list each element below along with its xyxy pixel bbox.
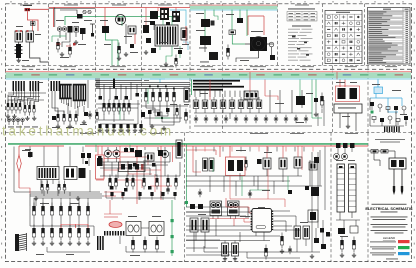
tall comp A2c (181, 28, 187, 40)
component C2-1 (109, 178, 112, 182)
wires B1c lower (98, 100, 138, 124)
switch B2s-1 (194, 117, 198, 121)
ground battery (17, 58, 21, 62)
inline connector C5a (371, 150, 378, 154)
relay block A2c-1 (150, 11, 158, 19)
component cluster B3R (370, 102, 408, 126)
coil C1-5 (68, 228, 71, 233)
blue drop wire B3R (377, 80, 379, 88)
green node B3R (371, 111, 374, 114)
section divider vertical x95 (95, 4, 97, 133)
key contact A4 (269, 42, 274, 55)
comps C4 top (336, 143, 355, 154)
mesh wires B1d (142, 106, 188, 118)
green accents A2a (52, 36, 66, 42)
wire cyan A2c (170, 10, 186, 26)
starter switch cluster (57, 26, 78, 33)
blue module B3R (374, 87, 383, 94)
labels C3 (198, 150, 308, 223)
relay C3c (294, 157, 302, 168)
regulator relay A2b (102, 26, 136, 34)
wire red alternator down (134, 34, 136, 44)
sensor B1a2-1 (24, 105, 26, 109)
connector pair C3 left (203, 158, 215, 171)
connector ring A2b (88, 10, 91, 13)
connector bars cluster B1a (13, 81, 25, 91)
small component B3R-2 (378, 104, 382, 108)
wire green regulator down (106, 33, 119, 66)
note inline connector sketches (292, 36, 309, 56)
wire green drop A3b (214, 10, 218, 20)
small component B3R-9 (396, 119, 400, 122)
injector C1-1 (33, 198, 35, 206)
comp A2c red (143, 8, 149, 34)
small component B3R-6 (372, 117, 376, 120)
wire green drops alternator (118, 14, 122, 26)
junction box B2 (244, 91, 258, 99)
labels A2a (56, 20, 92, 58)
relay B2-5 (229, 100, 235, 109)
red tops C1 second row (61, 224, 88, 228)
switch B1c-1 (103, 103, 106, 107)
right column comp C3c (308, 210, 318, 222)
fuel sender C4b (349, 164, 357, 212)
green vertical C2 right (185, 145, 188, 208)
diode block A2 (77, 14, 83, 19)
spark plug C5b (401, 169, 403, 195)
comps A2c bottom (144, 38, 182, 68)
mesh wires B1c (96, 104, 140, 108)
relay K1 (15, 30, 23, 42)
relay B2-4 (220, 100, 226, 109)
red outlined relay box C3 (226, 157, 246, 176)
dark box B2 right (296, 96, 305, 105)
section divider vertical x222 (222, 4, 224, 133)
wire red battery feed right (30, 8, 49, 10)
coil C1-4 (59, 228, 62, 233)
component C2 low-6 (173, 192, 176, 196)
svg-text:takethatmanual.com: takethatmanual.com (2, 124, 174, 139)
small component B3R-7 (380, 118, 384, 122)
labels A1 (16, 26, 41, 61)
component C2-2 (115, 178, 118, 182)
component C2-8 (175, 178, 178, 182)
main connector block A2c (155, 25, 178, 46)
lamp housing C2a (126, 222, 141, 236)
injector C1-4 (60, 198, 62, 206)
relay boxes C3 left (190, 218, 209, 232)
long wires C3 upper (186, 207, 248, 218)
ign module A3 (201, 19, 215, 27)
svg-text:ELECTRICAL SCHEMATIC: ELECTRICAL SCHEMATIC (365, 207, 413, 211)
svg-text:LEGEND: LEGEND (383, 236, 396, 240)
sensor B1a-1 (7, 103, 9, 107)
sensor column B1a2 (24, 102, 35, 116)
multi-pin connector B3R (384, 127, 400, 133)
red wires C3 lower (230, 146, 302, 207)
relay B3b (350, 88, 358, 99)
labels B1b (52, 124, 87, 128)
wire green connector drops (160, 17, 180, 63)
connector bars C1 right (97, 236, 104, 250)
lamp housing C2b2 (149, 222, 164, 236)
lamp B1c-5 (126, 124, 129, 128)
wires C3 extra mesh (186, 176, 290, 196)
wire C1 from red to harness (19, 188, 30, 194)
extra comps B1d (148, 105, 178, 119)
red segment C2 top (104, 159, 120, 163)
comps B1b (52, 111, 92, 120)
tall comp C2 right (176, 140, 182, 158)
bold bus bars B2 (193, 80, 244, 91)
legend blue bar (370, 252, 410, 255)
fuel pump C4a (337, 164, 345, 212)
switch B1c-4 (118, 103, 121, 107)
coil C1-6 (77, 228, 80, 233)
relay B2-3 (211, 100, 217, 109)
wires C2 lower (106, 191, 175, 200)
grounds B1b (56, 120, 86, 128)
junction bar B1c (113, 79, 115, 89)
component row C2 (109, 175, 178, 190)
wires C4 (336, 212, 360, 228)
fuse holder block (160, 8, 169, 20)
wire red A4 (248, 16, 264, 35)
sensor column B1a (7, 100, 21, 114)
ground amp (346, 124, 350, 128)
comps C3 left small (190, 204, 203, 209)
wire black A2 top (60, 10, 77, 14)
switch row B2 (194, 115, 308, 123)
red wires C2 lower (104, 170, 122, 198)
switch B2s-6 (244, 117, 248, 121)
comp C3 right mid (280, 233, 284, 254)
harness wires B1c horizontal (96, 79, 142, 89)
coil bank C1 second row (32, 225, 90, 246)
section divider vertical x368 (middle strip) (367, 66, 369, 133)
wires out ECU right (273, 211, 300, 232)
comp B1d bottom (141, 109, 188, 124)
wires C3 left (186, 232, 230, 255)
green wire B2 right edge (315, 80, 317, 99)
labels A3 (196, 13, 209, 62)
red drops B3 (337, 72, 345, 87)
red marks A2 bottom (56, 43, 76, 46)
wires B3R links (370, 98, 406, 126)
switch row B1d (144, 88, 175, 116)
comp C1 small top (25, 149, 33, 157)
lamp B1c-2 (105, 124, 108, 128)
small comp A4b (226, 45, 229, 60)
wire black alternator down (125, 24, 127, 44)
lower bus red wire (85, 146, 368, 147)
component C2 low-4 (150, 192, 153, 196)
wires C1 bottom links (30, 206, 94, 252)
wires C1 mid mesh (14, 170, 104, 196)
lamp socket B1-2 (12, 118, 16, 122)
coil C1-3 (50, 228, 53, 233)
switch B2s-8 (264, 117, 268, 121)
coil C1-7 (86, 228, 89, 233)
coil pack cluster C3 right (294, 226, 310, 239)
small component B3R-3 (386, 107, 390, 110)
component C2-5 (143, 178, 146, 182)
dual gauge C3b (228, 201, 240, 219)
relay K2 (26, 30, 34, 42)
lamp B1c-1 (98, 124, 101, 128)
labels C2b (128, 216, 161, 256)
relay module A3 (200, 36, 211, 52)
section divider vertical x190 (189, 4, 191, 133)
red oval connector C2b (109, 222, 122, 228)
switch B1c-5 (123, 103, 126, 107)
section title labels middle (22, 65, 397, 68)
relay module A2 (80, 28, 86, 40)
wires C3 bottom (204, 220, 323, 258)
wires C2 mid (100, 152, 180, 178)
sensor row B1b (57, 111, 78, 125)
gauge sensor B1b-4 (75, 114, 78, 118)
wire green A4 to switch (232, 35, 245, 45)
section divider horizontal y132 (6, 132, 412, 134)
grounds B1a (6, 114, 37, 120)
component C2 low-3 (138, 192, 141, 196)
lower bus red wire left segment (19, 146, 64, 147)
wires below cluster connectors (62, 99, 85, 109)
switch B1c-2 (108, 103, 111, 107)
relay C3a (263, 158, 271, 169)
wire red main feed A2 (49, 8, 96, 9)
switch B1d-5 (173, 88, 175, 92)
section divider vertical x48 (48, 4, 50, 133)
lamp bank B1c bottom (98, 124, 143, 132)
sensor B1a2-2 (28, 105, 30, 109)
wire red main feed A2b (96, 7, 142, 9)
comps C2 extra (98, 156, 156, 167)
sender gauge C4b (342, 154, 348, 160)
wires C2b links (120, 228, 165, 252)
comps C2 bottom (131, 237, 158, 253)
wire red connector drop (158, 8, 186, 45)
lamp B1c-7 (139, 124, 142, 128)
power bus band top red feed line (190, 4, 278, 7)
gauge sensor B1b-2 (63, 114, 66, 118)
section divider vertical x364 (top strip) (364, 4, 366, 66)
main bus red feed line (6, 71, 412, 72)
green edge wire B2 (191, 80, 193, 96)
wire C5 left drop (374, 153, 380, 166)
labels B1d (144, 80, 189, 105)
red verticals C2 (120, 146, 173, 204)
wire red main feed A2c (142, 7, 191, 9)
injector C1-5 (69, 198, 71, 206)
grounds A2b (117, 52, 128, 60)
ignition coil unit C5 (389, 158, 406, 169)
relay B2-2 (202, 100, 208, 109)
small comps A2b (117, 43, 134, 57)
gauge G1 (105, 150, 112, 162)
coil C1-1 (32, 228, 35, 233)
sender gauge C4a (334, 154, 340, 160)
lamp socket B1-1 (7, 118, 11, 122)
green drops C2 (96, 145, 130, 152)
comp A4 top (237, 18, 243, 23)
wire relay K2 down (30, 42, 49, 62)
component C2-3 (126, 178, 129, 182)
connector bars cluster B1c (51, 81, 61, 91)
section divider vertical x332 (middle strip) (332, 66, 334, 133)
title block text (365, 204, 413, 234)
labels inside green bus band (14, 74, 403, 75)
comp cluster C1c (81, 153, 91, 166)
component list table rows (368, 8, 411, 65)
small component B3R-10 (404, 116, 408, 120)
green connector nodes C2b (171, 219, 174, 253)
red outline box B3 (336, 86, 360, 102)
switch B2s-10 (284, 117, 288, 121)
wire green main A2 (65, 17, 96, 26)
connector ring A2a (83, 10, 86, 13)
switch B2s-3 (214, 117, 218, 121)
legend header (383, 236, 396, 240)
green accents B1 (120, 88, 170, 120)
ignition coil pack C3a (222, 241, 229, 261)
power bus band top cyan line (190, 9, 278, 12)
section title labels bottom (80, 132, 358, 135)
small component B3R-4 (394, 106, 398, 110)
legend red bar (370, 240, 410, 243)
harness wires B1a horizontal (8, 93, 46, 100)
junction dot B1d2 (161, 117, 163, 119)
wire green main A2c (142, 16, 176, 18)
switch B1d-3 (159, 88, 161, 92)
injector C1-7 (87, 198, 89, 206)
antenna comp A2 (90, 24, 95, 37)
title block footer (386, 258, 398, 261)
small component B3R-5 (402, 106, 406, 110)
relay B3a (338, 88, 346, 99)
extra grounds B1d (150, 124, 166, 130)
relay B2-6 (238, 100, 244, 109)
fuse block 2 (172, 11, 180, 22)
component C2 low-5 (161, 192, 164, 196)
ECU box C3 (251, 207, 274, 232)
lamp B1c-6 (133, 124, 136, 128)
connector bars cluster B1b (30, 81, 40, 91)
extra blocks A2c (150, 21, 170, 30)
wire red battery drop (28, 11, 39, 31)
relay cluster C1b (64, 167, 86, 180)
tall comp B1d (184, 88, 189, 102)
main bus green highlight band (6, 72, 412, 78)
fusible link F0 (25, 8, 31, 11)
wires B1b mesh (52, 80, 88, 116)
battery BT1 (15, 44, 23, 58)
lamp B1c-4 (119, 124, 122, 128)
relay B2-8 (256, 100, 262, 109)
wire green drops A4 (232, 10, 247, 36)
label fusible link (23, 4, 32, 7)
fuse A1 (31, 22, 36, 26)
switch B1d-1 (145, 88, 147, 92)
labels B1a (8, 82, 43, 127)
lamp socket B1-3 (16, 118, 20, 122)
instrument cluster connector J2b (73, 84, 86, 101)
wires below ECU (186, 219, 280, 242)
relay B2-1 (193, 100, 199, 109)
sensor B1a-4 (19, 103, 21, 107)
comp B2 right edge (314, 98, 318, 116)
small comps C3 mid (198, 157, 319, 199)
wires C5 (369, 151, 396, 158)
red fusible link diamond C1 (17, 155, 22, 172)
component C2 low-1 (110, 192, 113, 196)
wires C3 mid (186, 150, 322, 192)
lower bus green wire (8, 143, 368, 145)
relay C3b (279, 158, 287, 169)
spark plug C5a (393, 169, 395, 195)
right column verticals C3 (312, 147, 325, 253)
connector strip C2b (104, 231, 124, 236)
drop wires B2 (195, 91, 255, 97)
comp B1c left (96, 109, 99, 123)
key switch operation chart table (287, 9, 317, 22)
injector bank C1 top row (32, 198, 89, 226)
alternator G1 (116, 15, 126, 25)
wire cyan lower A2c (183, 26, 188, 50)
wires C1 harness top (30, 194, 102, 206)
switch B1d-4 (166, 88, 168, 92)
gauge sensor B1b-1 (57, 114, 60, 118)
labels B3L (336, 82, 357, 117)
gauge sensor B1b-3 (69, 114, 72, 118)
right column comps C3d (310, 228, 330, 258)
bus drop stubs C3 (196, 147, 313, 152)
section title labels top (20, 4, 309, 7)
legend green bar (370, 246, 410, 249)
component C2-7 (167, 178, 170, 182)
right column comp C3a (309, 162, 317, 170)
sensor B1a2-3 (33, 105, 35, 109)
harness fan-out wires B1a (8, 91, 39, 105)
small component B3R-8 (388, 116, 392, 120)
blue wires B3R (370, 94, 402, 113)
switch row B1c (103, 100, 131, 115)
component C2-4 (132, 178, 135, 182)
section divider vertical x322 (top strip) (322, 4, 324, 66)
inline connector C5b (381, 150, 388, 154)
diode module A3 (209, 52, 218, 60)
relay panel C1 (37, 167, 59, 185)
red outlined box C1 (96, 147, 105, 181)
watermark takethatmanual.com (2, 124, 174, 139)
bus drop wires C1 mid (14, 147, 83, 193)
green accents C3 (213, 160, 288, 196)
component C2 low-2 (121, 192, 124, 196)
wire red fuse branch (32, 20, 34, 31)
coil C1-2 (41, 228, 44, 233)
labels A4 (226, 14, 263, 61)
amplifier unit B3 (334, 104, 362, 131)
comps C3 extra (288, 186, 309, 194)
section divider vertical x184 (bottom strip) (184, 133, 186, 263)
injector C1-6 (78, 198, 80, 206)
labels A2c (144, 21, 189, 49)
flasher relay C2 (145, 153, 154, 161)
red wires C3 top (186, 146, 230, 172)
lamp socket B1-4 (21, 118, 25, 122)
wire relay to battery (18, 42, 20, 44)
